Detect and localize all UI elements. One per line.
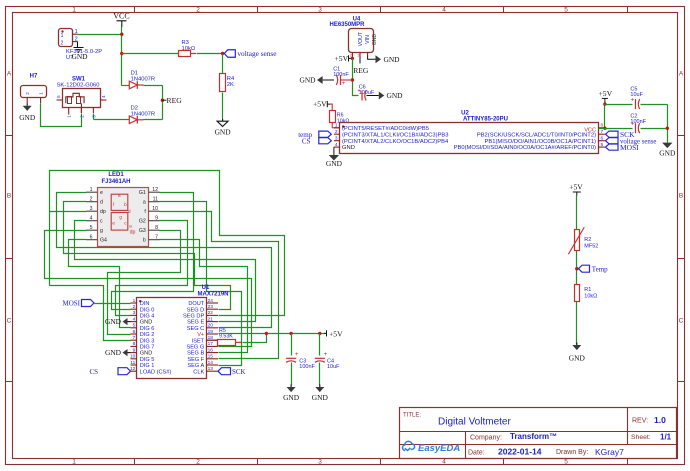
- svg-text:GND: GND: [140, 351, 152, 357]
- svg-text:10uF: 10uF: [327, 364, 340, 370]
- svg-text:SEG F: SEG F: [187, 357, 204, 363]
- wire net G1: [112, 193, 194, 310]
- svg-text:1: 1: [72, 6, 76, 13]
- svg-text:3: 3: [357, 54, 359, 58]
- svg-text:GND: GND: [105, 348, 122, 357]
- wire net G3: [108, 231, 181, 335]
- svg-text:g: g: [100, 228, 103, 234]
- ground at U1 pin4: [128, 321, 131, 323]
- ground at C3: [290, 385, 292, 388]
- svg-text:VOUT: VOUT: [358, 31, 364, 46]
- svg-text:H7: H7: [30, 73, 38, 79]
- svg-text:10kΩ: 10kΩ: [182, 46, 196, 52]
- svg-text:GND: GND: [283, 393, 300, 402]
- svg-text:CS: CS: [89, 368, 98, 376]
- svg-text:4: 4: [133, 316, 136, 322]
- svg-text:3: 3: [133, 310, 136, 316]
- svg-text:7: 7: [155, 234, 158, 240]
- svg-text:2: 2: [61, 41, 64, 47]
- svg-text:G4: G4: [100, 238, 107, 244]
- svg-text:1.0: 1.0: [654, 415, 666, 425]
- svg-text:GND: GND: [299, 76, 316, 85]
- svg-text:20: 20: [208, 323, 214, 329]
- svg-text:SEG DP: SEG DP: [183, 314, 204, 320]
- svg-text:DIG 7: DIG 7: [140, 345, 155, 351]
- svg-text:+: +: [342, 81, 346, 87]
- svg-text:2: 2: [90, 196, 93, 202]
- svg-text:DIG 1: DIG 1: [140, 363, 155, 369]
- svg-text:2: 2: [75, 36, 78, 42]
- svg-text:Date:: Date:: [468, 450, 485, 457]
- svg-text:ISET: ISET: [192, 338, 205, 344]
- svg-text:DIG 6: DIG 6: [140, 326, 155, 332]
- svg-text:10kΩ: 10kΩ: [584, 294, 597, 300]
- svg-text:7: 7: [601, 129, 604, 135]
- svg-text:GND: GND: [140, 320, 152, 326]
- svg-text:Sheet:: Sheet:: [631, 434, 651, 441]
- svg-text:A: A: [679, 70, 684, 77]
- svg-text:SEG A: SEG A: [187, 363, 204, 369]
- svg-text:(PCINT4/XTAL2/CLKO/OC1B/ADC2)P: (PCINT4/XTAL2/CLKO/OC1B/ADC2)PB4: [342, 139, 449, 145]
- svg-text:LED1: LED1: [108, 172, 124, 178]
- svg-text:DIG 4: DIG 4: [140, 314, 155, 320]
- svg-text:e: e: [100, 190, 103, 196]
- EasyEDA logo: [403, 441, 415, 450]
- svg-text:KGray7: KGray7: [595, 447, 624, 457]
- svg-text:MAX7219N: MAX7219N: [197, 291, 228, 297]
- svg-text:3: 3: [335, 136, 338, 142]
- svg-text:Digital Voltmeter: Digital Voltmeter: [438, 417, 511, 428]
- svg-text:DIN: DIN: [140, 301, 150, 307]
- title block: [400, 408, 677, 459]
- ground at U4: [368, 56, 376, 60]
- svg-text:GND: GND: [372, 33, 378, 45]
- svg-text:U2: U2: [461, 111, 469, 117]
- svg-text:6: 6: [601, 136, 604, 142]
- svg-text:5: 5: [564, 6, 568, 13]
- ground at C1: [317, 76, 323, 84]
- svg-text:SEG C: SEG C: [187, 326, 204, 332]
- svg-text:+: +: [631, 97, 635, 103]
- svg-text:C: C: [7, 317, 12, 324]
- wire net c: [75, 221, 256, 322]
- svg-text:2: 2: [133, 304, 136, 310]
- svg-text:6: 6: [133, 329, 136, 335]
- wire net b: [160, 240, 248, 353]
- svg-text:1: 1: [90, 187, 93, 193]
- wire ISET to V+ rail: [235, 341, 242, 343]
- wire D2 to SW1: [94, 119, 122, 121]
- svg-text:GND: GND: [105, 317, 122, 326]
- wire +5V to R2: [576, 196, 578, 230]
- svg-text:2: 2: [196, 6, 200, 13]
- svg-text:+: +: [324, 352, 328, 358]
- capacitor C3 100nF: [291, 334, 293, 356]
- svg-text:13: 13: [208, 366, 214, 372]
- svg-text:DOUT: DOUT: [188, 301, 204, 307]
- wire right rail to ground: [667, 105, 669, 143]
- svg-text:GND: GND: [569, 354, 586, 363]
- svg-text:+: +: [357, 89, 361, 95]
- wire net dp (box around LED1): [50, 211, 87, 213]
- svg-text:+5V: +5V: [313, 100, 327, 109]
- svg-text:2: 2: [335, 129, 338, 135]
- svg-text:U1: U1: [202, 285, 210, 291]
- svg-text:5: 5: [601, 142, 604, 148]
- svg-text:Company:: Company:: [470, 435, 502, 442]
- wire connector pin1 to VCC: [78, 34, 122, 36]
- svg-text:a: a: [118, 193, 121, 198]
- svg-text:1: 1: [72, 458, 76, 465]
- svg-text:SEG E: SEG E: [187, 320, 204, 326]
- net flag voltage sense at U2: [606, 138, 619, 144]
- svg-text:16: 16: [208, 347, 214, 353]
- net flag temp at U2: [319, 131, 332, 137]
- svg-text:4: 4: [442, 458, 446, 465]
- svg-text:1N4007R: 1N4007R: [131, 111, 156, 117]
- resistor R1 10k: [575, 285, 580, 302]
- svg-text:5: 5: [90, 225, 93, 231]
- svg-text:DIG 2: DIG 2: [140, 332, 155, 338]
- svg-text:2022-01-14: 2022-01-14: [498, 447, 542, 457]
- svg-text:GND: GND: [72, 52, 89, 61]
- ground at C2/C5: [662, 143, 672, 149]
- svg-text:9.53K: 9.53K: [219, 334, 233, 340]
- svg-text:11: 11: [130, 360, 135, 366]
- node voltage sense flag: [221, 52, 224, 55]
- svg-text:+5V: +5V: [329, 329, 343, 338]
- wire net a: [160, 202, 242, 366]
- svg-text:GND: GND: [215, 128, 232, 137]
- svg-text:1N4007R: 1N4007R: [131, 77, 156, 83]
- svg-text:DIG 3: DIG 3: [140, 338, 155, 344]
- 7-segment digit graphic: [111, 194, 128, 230]
- svg-text:VIN: VIN: [365, 35, 371, 44]
- svg-text:2: 2: [196, 458, 200, 465]
- wire net e: [57, 193, 272, 328]
- ground at U1 pin9: [128, 352, 131, 354]
- svg-text:Temp: Temp: [592, 265, 608, 273]
- svg-text:GND: GND: [387, 91, 404, 100]
- svg-text:B: B: [679, 192, 683, 199]
- svg-text:24: 24: [208, 298, 214, 304]
- svg-text:+5V: +5V: [599, 89, 613, 98]
- diode D1 1N4007R: [122, 85, 130, 87]
- diode D2 1N4007R: [144, 119, 163, 121]
- net flag MOSI at U1: [95, 303, 131, 305]
- svg-text:10: 10: [152, 206, 158, 212]
- svg-text:b: b: [124, 202, 127, 207]
- svg-text:V+: V+: [197, 332, 204, 338]
- svg-text:7: 7: [133, 335, 136, 341]
- svg-text:C: C: [679, 317, 684, 324]
- svg-text:GND: GND: [312, 393, 329, 402]
- svg-text:A: A: [7, 70, 12, 77]
- svg-text:GND: GND: [659, 149, 676, 158]
- resistor R6 10k: [330, 104, 332, 110]
- wire R1 to ground: [576, 302, 578, 345]
- wire net G4: [69, 240, 131, 328]
- net flag MOSI at U2: [606, 144, 619, 150]
- svg-text:REV:: REV:: [632, 418, 648, 425]
- svg-text:3: 3: [90, 206, 93, 212]
- wire net d: [64, 202, 231, 310]
- svg-text:CLK: CLK: [193, 369, 204, 375]
- net flag SCK at U2: [606, 131, 619, 137]
- svg-text:FJ3461AH: FJ3461AH: [101, 179, 130, 185]
- svg-text:8: 8: [601, 123, 604, 129]
- wire D1 to REG node: [144, 85, 163, 87]
- ground below H7: [26, 103, 28, 106]
- svg-text:8: 8: [133, 341, 136, 347]
- svg-text:R4: R4: [227, 76, 235, 82]
- ground at connector pin2: [74, 42, 84, 52]
- svg-text:GND: GND: [342, 145, 355, 151]
- node +5V at U1: [324, 330, 327, 336]
- svg-text:R2: R2: [584, 237, 591, 243]
- svg-text:10: 10: [130, 354, 136, 360]
- svg-text:11: 11: [153, 196, 158, 202]
- svg-text:+: +: [295, 352, 299, 358]
- net flag CS at U1: [118, 368, 131, 375]
- svg-text:1: 1: [75, 29, 78, 35]
- svg-text:R1: R1: [584, 287, 591, 293]
- svg-text:1: 1: [61, 33, 64, 39]
- svg-text:c: c: [100, 219, 103, 225]
- svg-text:+: +: [631, 121, 635, 127]
- svg-text:d: d: [128, 209, 131, 214]
- svg-text:DIG 0: DIG 0: [140, 307, 155, 313]
- svg-text:2K: 2K: [227, 82, 234, 88]
- svg-text:21: 21: [208, 316, 214, 322]
- svg-text:SW1: SW1: [72, 76, 86, 82]
- svg-text:4: 4: [335, 142, 338, 148]
- thermistor R2 MF52: [575, 230, 580, 251]
- svg-text:REG: REG: [353, 66, 369, 75]
- svg-text:14: 14: [208, 360, 214, 366]
- svg-text:6: 6: [90, 234, 93, 240]
- svg-text:1: 1: [335, 123, 338, 129]
- wire H7 pin1 to SW1 pin2: [41, 104, 82, 127]
- svg-text:G2: G2: [139, 219, 146, 225]
- svg-text:17: 17: [208, 341, 214, 347]
- wire V+ rail to +5V: [219, 333, 325, 335]
- svg-text:PB2(SCK/USCK/SCL/ADC1/T0/INT0/: PB2(SCK/USCK/SCL/ADC1/T0/INT0/PCINT2): [477, 132, 596, 138]
- node REG at U4 input: [359, 57, 361, 64]
- svg-text:+5V: +5V: [569, 183, 583, 192]
- ground below R4: [222, 119, 224, 121]
- node REG: [161, 99, 164, 102]
- svg-text:12: 12: [152, 187, 158, 193]
- svg-text:a: a: [129, 224, 132, 229]
- svg-text:SEG D: SEG D: [187, 307, 204, 313]
- svg-text:a: a: [143, 200, 146, 206]
- svg-text:b: b: [143, 238, 146, 244]
- svg-text:GND: GND: [326, 159, 343, 168]
- svg-text:8: 8: [155, 225, 158, 231]
- svg-text:B: B: [7, 192, 11, 199]
- svg-text:EasyEDA: EasyEDA: [418, 443, 460, 454]
- resistor R3 10k: [122, 53, 179, 55]
- svg-text:SK-12D02-G060: SK-12D02-G060: [57, 83, 100, 89]
- svg-text:G3: G3: [139, 228, 146, 234]
- svg-text:MOSI: MOSI: [620, 143, 639, 152]
- svg-text:3: 3: [318, 458, 322, 465]
- svg-text:3: 3: [318, 6, 322, 13]
- svg-text:(PCINT3/XTAL1/CLKI/OC1B#/ADC3): (PCINT3/XTAL1/CLKI/OC1B#/ADC3)PB3: [342, 132, 449, 138]
- svg-text:5: 5: [564, 458, 568, 465]
- svg-text:GND: GND: [19, 113, 36, 122]
- svg-text:23: 23: [208, 304, 214, 310]
- svg-text:5: 5: [133, 323, 136, 329]
- wire net f: [160, 212, 279, 359]
- svg-text:DIG 5: DIG 5: [140, 357, 155, 363]
- svg-text:Drawn By:: Drawn By:: [556, 449, 588, 456]
- connector U3 KF301-5.0-2P: [59, 29, 73, 47]
- svg-text:d: d: [100, 200, 103, 206]
- svg-text:REG: REG: [167, 96, 183, 105]
- capacitor C4 10uF: [319, 334, 321, 356]
- svg-text:PB1(MISO/DO/AIN1/OC0B/OC1A/PCI: PB1(MISO/DO/AIN1/OC0B/OC1A/PCINT1): [485, 139, 597, 145]
- svg-text:9: 9: [155, 215, 158, 221]
- svg-text:GND: GND: [384, 55, 401, 64]
- svg-text:1/1: 1/1: [660, 433, 672, 442]
- svg-text:e: e: [112, 221, 115, 226]
- svg-text:SEG G: SEG G: [186, 345, 204, 351]
- svg-text:SCK: SCK: [232, 368, 246, 376]
- ground at C6: [379, 92, 385, 100]
- svg-text:19: 19: [208, 329, 214, 335]
- svg-text:G1: G1: [139, 190, 146, 196]
- svg-text:SEG B: SEG B: [187, 351, 204, 357]
- svg-text:TITLE:: TITLE:: [403, 413, 421, 419]
- wire +5V to U2 VCC: [604, 105, 606, 129]
- svg-text:dp: dp: [130, 230, 136, 236]
- svg-text:2: 2: [350, 54, 352, 58]
- ground at U2 pin4: [333, 147, 335, 155]
- svg-text:4: 4: [442, 6, 446, 13]
- net flag Temp: [575, 267, 578, 270]
- svg-text:MF52: MF52: [584, 244, 598, 250]
- svg-text:22: 22: [208, 310, 214, 316]
- wire R2 to R1: [576, 251, 578, 285]
- wire VCC vertical: [121, 27, 123, 86]
- net flag CS at U2: [319, 138, 332, 144]
- net flag SCK at U1: [218, 368, 231, 375]
- svg-text:15: 15: [208, 354, 214, 360]
- svg-text:HE6350MPR: HE6350MPR: [329, 22, 365, 28]
- svg-text:LOAD (CS#): LOAD (CS#): [140, 369, 172, 375]
- ground below R1: [576, 343, 578, 346]
- wire net G2: [116, 221, 188, 316]
- svg-text:dp: dp: [100, 209, 106, 215]
- svg-text:100nF: 100nF: [299, 364, 315, 370]
- svg-text:10kΩ: 10kΩ: [337, 119, 350, 125]
- wire +5V rail down from U4: [352, 59, 354, 93]
- svg-text:VCC: VCC: [113, 12, 129, 21]
- svg-text:1: 1: [133, 298, 136, 304]
- svg-text:MOSI: MOSI: [62, 300, 80, 308]
- svg-text:PB0(MOSI/DI/SDA/AIN0/OC0A/OC1A: PB0(MOSI/DI/SDA/AIN0/OC0A/OC1A#/AREF/PCI…: [454, 145, 596, 151]
- svg-text:g: g: [119, 214, 122, 219]
- ground at C4: [319, 385, 321, 388]
- svg-text:ATTINY85-20PU: ATTINY85-20PU: [463, 117, 508, 123]
- svg-text:CS: CS: [302, 137, 311, 145]
- svg-text:(PCINT5/RESET#/ADC0/dW)PB5: (PCINT5/RESET#/ADC0/dW)PB5: [342, 126, 429, 132]
- svg-text:Transform™: Transform™: [510, 432, 557, 441]
- svg-text:+5V: +5V: [335, 54, 349, 63]
- svg-text:9: 9: [133, 347, 136, 353]
- wire net g: [45, 231, 252, 347]
- svg-text:100nF: 100nF: [333, 72, 349, 78]
- svg-text:voltage sense: voltage sense: [237, 49, 276, 58]
- svg-text:4: 4: [90, 215, 93, 221]
- resistor R4 2K: [222, 54, 224, 74]
